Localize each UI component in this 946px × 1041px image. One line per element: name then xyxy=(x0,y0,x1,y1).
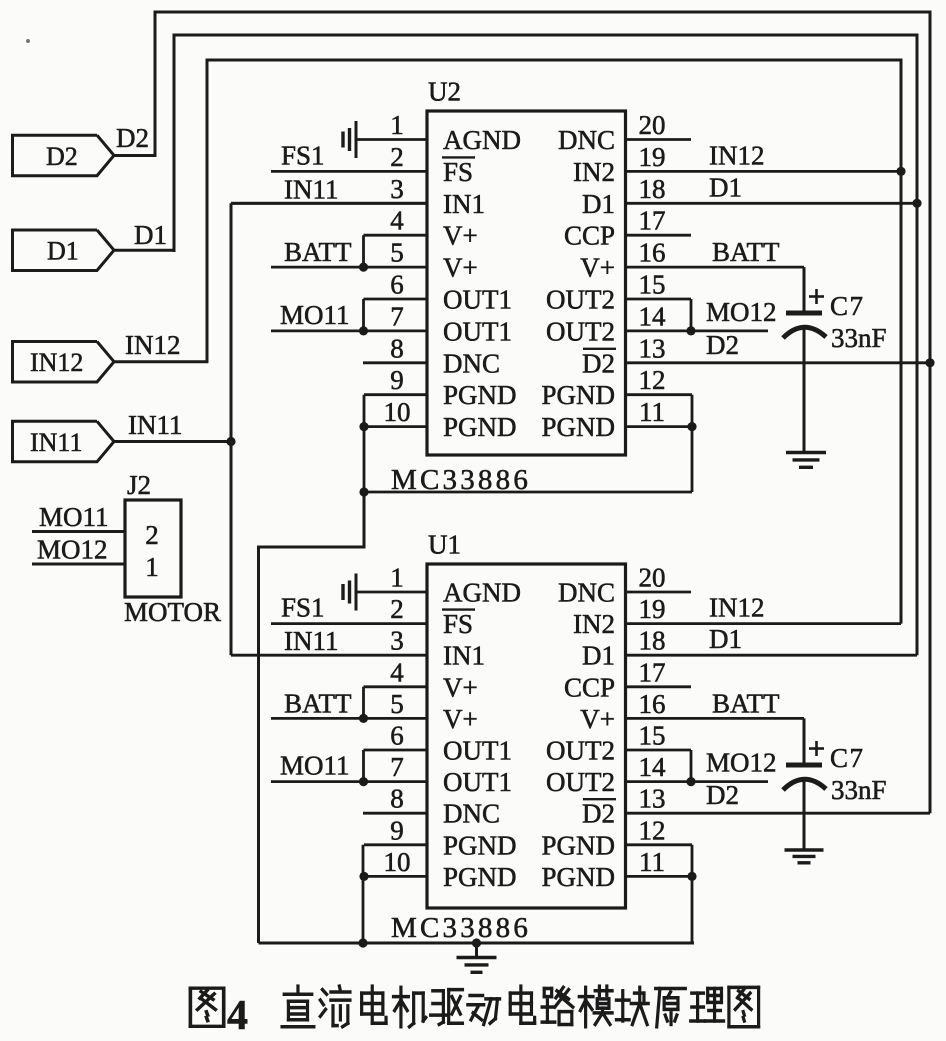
capacitor C7 (U2) top plate xyxy=(786,311,822,316)
svg-text:IN11: IN11 xyxy=(128,410,183,440)
wire U2 OUT2 loop vertical pin15-pin14 xyxy=(690,299,693,331)
svg-text:D1: D1 xyxy=(582,189,615,219)
svg-text:C7: C7 xyxy=(830,291,865,321)
caption character 模 xyxy=(579,986,612,1027)
wire U1 pin9 PGND xyxy=(364,843,427,846)
svg-text:V+: V+ xyxy=(443,704,478,734)
junction U1 PGND bottom-left xyxy=(358,938,367,947)
wire IN11 bus vertical: U2 pin3 down to U1 pin3 xyxy=(231,202,427,205)
capacitor C7 (U1) top plate xyxy=(786,763,822,768)
svg-text:BATT: BATT xyxy=(284,237,352,267)
svg-text:4: 4 xyxy=(390,657,404,687)
wire U1 pin15 OUT2 xyxy=(626,749,692,752)
svg-text:10: 10 xyxy=(384,847,411,877)
capacitor C7 (U1) lead to ground xyxy=(803,778,806,849)
svg-text:BATT: BATT xyxy=(712,237,780,267)
junction U2 pin7 MO11 xyxy=(359,326,368,335)
capacitor C7 (U1) lead from V+ wire xyxy=(803,718,806,763)
svg-text:MO11: MO11 xyxy=(280,751,350,781)
wire U1 pin16 V+ to BATT/C7 xyxy=(626,717,805,720)
wire U2 pin16 V+ to BATT/C7 xyxy=(626,266,805,269)
caption character 原 xyxy=(656,988,686,1026)
svg-text:IN12: IN12 xyxy=(30,348,83,377)
wire U2 pin5 V+ from BATT xyxy=(271,266,427,269)
svg-text:U1: U1 xyxy=(428,530,461,560)
wire U1 pin5 V+ from BATT xyxy=(271,717,427,720)
svg-text:D2: D2 xyxy=(706,780,739,810)
svg-text:16: 16 xyxy=(639,689,666,719)
svg-text:17: 17 xyxy=(639,657,666,687)
svg-text:6: 6 xyxy=(390,721,404,751)
svg-text:D2: D2 xyxy=(46,142,78,171)
wire U1 pin8 DNC stub xyxy=(363,812,427,815)
svg-text:V+: V+ xyxy=(443,672,478,702)
svg-text:IN1: IN1 xyxy=(443,641,485,671)
svg-text:BATT: BATT xyxy=(284,688,352,718)
svg-text:D2: D2 xyxy=(582,799,615,829)
wire U2 PGND left loop vertical pin9-pin10 down to bottom rail xyxy=(363,395,366,492)
svg-text:D2: D2 xyxy=(582,348,615,378)
svg-text:IN1: IN1 xyxy=(443,189,485,219)
caption character 直 xyxy=(282,986,314,1027)
wire U2 pin6 OUT1 xyxy=(364,298,428,301)
caption character 驱 xyxy=(431,990,463,1025)
wire flag IN11 to IN11 bus junction xyxy=(114,440,231,443)
wire U2 pin3 IN1 from IN11 bus xyxy=(231,202,427,205)
svg-text:D2: D2 xyxy=(706,330,739,360)
svg-text:V+: V+ xyxy=(443,221,478,251)
wire U2 pin1 AGND to signal ground xyxy=(356,138,427,141)
svg-text:IN11: IN11 xyxy=(284,174,339,204)
svg-text:IN11: IN11 xyxy=(30,428,82,457)
connector J2 MOTOR outline xyxy=(125,500,181,597)
wire U1 pin13 D2 to D2 bus xyxy=(626,812,931,815)
capacitor C7 (U2) curved plate xyxy=(783,327,826,338)
svg-text:IN12: IN12 xyxy=(709,140,765,170)
caption character 动 xyxy=(468,995,500,1024)
wire U2 pin7 OUT1 from MO11 xyxy=(271,329,427,332)
wire U1 pin3 IN1 from IN11 bus xyxy=(231,654,427,657)
svg-text:OUT1: OUT1 xyxy=(443,736,512,766)
ground (signal) at U1 pin1 xyxy=(343,574,356,611)
svg-text:9: 9 xyxy=(390,365,404,395)
svg-text:3: 3 xyxy=(390,174,404,204)
wire MO12 to J2 pin1 xyxy=(32,563,125,566)
capacitor C7 (U2) polarity + xyxy=(809,289,824,304)
svg-text:11: 11 xyxy=(639,847,665,877)
svg-text:V+: V+ xyxy=(443,253,478,283)
ground (earth) main PGND xyxy=(457,958,497,973)
caption character 图 xyxy=(729,987,759,1026)
junction U2 pin18 / D1 bus xyxy=(912,199,921,208)
svg-text:OUT1: OUT1 xyxy=(443,767,512,797)
wire U1 pin14 OUT2 to MO12 xyxy=(626,780,769,783)
svg-text:3: 3 xyxy=(390,626,404,656)
caption character 电 xyxy=(362,986,386,1023)
svg-text:14: 14 xyxy=(639,301,667,331)
connector flag D2 xyxy=(13,135,115,176)
IC U1 (lower driver) body outline MC33886 xyxy=(427,564,626,908)
svg-text:U2: U2 xyxy=(428,77,461,107)
wire flag IN12 to bus xyxy=(114,360,208,363)
wire U1 pin2 FS from FS1 xyxy=(271,622,427,625)
svg-text:MOTOR: MOTOR xyxy=(124,597,221,627)
caption character 路 xyxy=(542,987,573,1024)
svg-text:2: 2 xyxy=(390,142,404,172)
wire U2 pin4 V+ xyxy=(364,234,428,237)
wire U1 PGND right loop vertical pin12-pin11 to bottom rail xyxy=(691,845,694,943)
svg-text:13: 13 xyxy=(639,784,666,814)
svg-text:19: 19 xyxy=(639,594,666,624)
svg-text:18: 18 xyxy=(639,626,666,656)
connector flag D1 xyxy=(13,230,115,271)
junction U1 pin5 BATT xyxy=(359,714,368,723)
svg-text:MO11: MO11 xyxy=(39,502,109,532)
wire PGND link U2 to U1: down, left, down xyxy=(259,492,365,943)
capacitor C7 (U2) lead to ground xyxy=(803,326,806,451)
caption character 块 xyxy=(616,987,648,1024)
svg-text:C7: C7 xyxy=(830,743,865,773)
wire U1 pin12 PGND xyxy=(626,843,693,846)
junction U2 pin13 / D2 bus xyxy=(925,358,934,367)
wire U2 pin10 PGND xyxy=(364,425,427,428)
junction U2 PGND bottom-left xyxy=(359,487,368,496)
junction U2 pin19 / IN12 bus xyxy=(896,167,905,176)
junction U1 pin7 MO11 xyxy=(359,777,368,786)
svg-text:OUT2: OUT2 xyxy=(546,316,615,346)
svg-text:MO12: MO12 xyxy=(37,535,108,565)
svg-text:OUT1: OUT1 xyxy=(443,285,512,315)
svg-text:D1: D1 xyxy=(582,641,615,671)
svg-text:33nF: 33nF xyxy=(831,775,887,805)
svg-text:PGND: PGND xyxy=(443,412,517,442)
junction U2 pin10 PGND xyxy=(359,422,368,431)
svg-text:15: 15 xyxy=(639,270,666,300)
wire U1 OUT2 loop vertical pin15-pin14 xyxy=(690,750,693,782)
wire U1 pin4 V+ xyxy=(364,685,428,688)
wire U1 pin19 IN2 to IN12 bus xyxy=(626,622,902,625)
svg-text:1: 1 xyxy=(390,110,404,140)
svg-text:V+: V+ xyxy=(580,253,615,283)
wire flag D1 to bus xyxy=(114,249,175,252)
wire U1 PGND left loop vertical pin9-pin10 to bottom rail xyxy=(362,845,365,943)
wire U1 pin7 OUT1 from MO11 xyxy=(271,780,427,783)
connector flag IN11 xyxy=(13,421,115,462)
wire U2 pin15 OUT2 xyxy=(626,298,692,301)
svg-text:FS1: FS1 xyxy=(281,593,325,623)
wire U1 pin6 OUT1 xyxy=(364,749,428,752)
svg-text:CCP: CCP xyxy=(564,221,615,251)
svg-text:7: 7 xyxy=(390,752,404,782)
wire U1 pin18 D1 to D1 bus xyxy=(626,654,918,657)
svg-text:IN12: IN12 xyxy=(125,330,181,360)
svg-text:5: 5 xyxy=(390,238,404,268)
svg-text:4: 4 xyxy=(390,206,404,236)
wire U2 pin20 DNC stub xyxy=(626,138,692,141)
capacitor C7 (U1) polarity + xyxy=(809,741,824,756)
svg-text:PGND: PGND xyxy=(443,380,517,410)
wire U1 pin1 AGND to signal ground xyxy=(356,591,427,594)
svg-text:5: 5 xyxy=(390,689,404,719)
wire U1 pin10 PGND xyxy=(364,875,427,878)
svg-text:OUT2: OUT2 xyxy=(546,285,615,315)
junction U2 pin11 PGND xyxy=(687,422,696,431)
wire U2 OUT1 loop vertical pin6-pin7 xyxy=(362,299,365,331)
svg-text:20: 20 xyxy=(639,563,666,593)
svg-text:J2: J2 xyxy=(127,470,151,500)
svg-text:2: 2 xyxy=(145,520,159,550)
caption character 图 xyxy=(190,988,223,1026)
wire U2 pin13 D2 to D2 bus xyxy=(626,361,931,364)
svg-text:MO12: MO12 xyxy=(706,297,777,327)
wire U2 pin18 D1 to D1 bus xyxy=(626,202,918,205)
svg-text:MO11: MO11 xyxy=(280,300,350,330)
svg-text:13: 13 xyxy=(639,333,666,363)
svg-text:8: 8 xyxy=(390,333,404,363)
svg-text:12: 12 xyxy=(639,365,666,395)
svg-text:OUT2: OUT2 xyxy=(546,767,615,797)
wire MO11 to J2 pin2 xyxy=(32,530,125,533)
capacitor C7 (U1) curved plate xyxy=(783,779,826,790)
svg-text:FS1: FS1 xyxy=(281,140,325,170)
U1 FS pin-name overline xyxy=(442,608,475,610)
svg-text:12: 12 xyxy=(639,815,666,845)
ground (earth) C7 U2 xyxy=(786,453,826,468)
svg-text:17: 17 xyxy=(639,206,666,236)
wire U2 BATT loop vertical pin4-pin5 xyxy=(362,235,365,267)
svg-text:18: 18 xyxy=(639,174,666,204)
svg-text:19: 19 xyxy=(639,142,666,172)
ground stub below U1 PGND rail xyxy=(475,943,478,956)
svg-text:MC33886: MC33886 xyxy=(391,912,531,944)
wire IN12 bus: flag IN12 up-over-down to U1 pin19 xyxy=(207,60,901,624)
svg-text:DNC: DNC xyxy=(443,348,500,378)
svg-text:D1: D1 xyxy=(134,220,167,250)
svg-text:MO12: MO12 xyxy=(706,748,777,778)
wire U1 BATT loop vertical pin4-pin5 xyxy=(362,687,365,719)
svg-text:6: 6 xyxy=(390,270,404,300)
svg-text:DNC: DNC xyxy=(558,578,615,608)
svg-text:AGND: AGND xyxy=(443,578,521,608)
svg-text:8: 8 xyxy=(390,784,404,814)
svg-text:D1: D1 xyxy=(709,624,742,654)
svg-text:OUT2: OUT2 xyxy=(546,736,615,766)
svg-text:20: 20 xyxy=(639,110,666,140)
svg-text:CCP: CCP xyxy=(564,672,615,702)
svg-text:PGND: PGND xyxy=(443,862,517,892)
svg-text:PGND: PGND xyxy=(541,412,615,442)
junction U1 pin14 MO12 xyxy=(686,777,695,786)
wire U2 pin9 PGND xyxy=(364,393,427,396)
wire flag D2 to bus xyxy=(112,154,156,157)
svg-text:IN11: IN11 xyxy=(284,626,339,656)
svg-text:OUT1: OUT1 xyxy=(443,316,512,346)
svg-text:IN2: IN2 xyxy=(573,157,615,187)
U2 D2 pin-name overline xyxy=(583,348,616,350)
svg-text:DNC: DNC xyxy=(443,799,500,829)
svg-text:DNC: DNC xyxy=(558,125,615,155)
wire U2 pin2 FS from FS1 xyxy=(271,170,427,173)
junction U2 pin14 MO12 xyxy=(686,326,695,335)
wire U2 PGND bottom rail xyxy=(364,491,692,494)
svg-text:7: 7 xyxy=(390,301,404,331)
svg-text:D2: D2 xyxy=(116,123,149,153)
wire U2 pin12 PGND xyxy=(626,393,693,396)
IC U2 (upper driver) body outline MC33886 xyxy=(427,111,626,455)
svg-text:PGND: PGND xyxy=(541,862,615,892)
svg-text:33nF: 33nF xyxy=(831,323,887,353)
svg-text:AGND: AGND xyxy=(443,125,521,155)
U2 FS pin-name overline xyxy=(442,156,475,158)
U1 D2 pin-name overline xyxy=(583,798,616,800)
svg-text:PGND: PGND xyxy=(541,380,615,410)
caption character 机 xyxy=(394,987,426,1026)
svg-text:D1: D1 xyxy=(709,172,742,202)
caption character 电 xyxy=(510,986,534,1023)
svg-text:11: 11 xyxy=(639,397,665,427)
junction U1 pin10 PGND xyxy=(359,872,368,881)
svg-text:BATT: BATT xyxy=(712,688,780,718)
wire U2 pin8 DNC stub xyxy=(363,361,427,364)
svg-text:4: 4 xyxy=(227,993,248,1039)
wire U2 pin19 IN2 to IN12 bus xyxy=(626,170,902,173)
wire D2 bus: flag D2 up-over-down to U1 pin13 xyxy=(155,12,930,813)
wire U1 pin20 DNC stub xyxy=(626,591,692,594)
junction bottom rail to earth ground xyxy=(472,938,481,947)
scan speck (decorative) xyxy=(26,39,30,43)
svg-text:FS: FS xyxy=(443,157,473,187)
wire U2 PGND right loop vertical pin12-pin11 to bottom rail xyxy=(691,395,694,492)
junction U1 pin11 PGND xyxy=(687,872,696,881)
svg-text:D1: D1 xyxy=(47,237,79,266)
caption character 理 xyxy=(691,988,724,1020)
wire U2 pin14 OUT2 to MO12 xyxy=(626,329,769,332)
svg-text:PGND: PGND xyxy=(541,830,615,860)
svg-text:FS: FS xyxy=(443,609,473,639)
caption character 流 xyxy=(320,986,350,1027)
ground (earth) C7 U1 xyxy=(785,850,824,863)
wire U2 pin11 PGND xyxy=(626,425,693,428)
wire U1 PGND bottom rail xyxy=(259,942,695,945)
svg-text:IN2: IN2 xyxy=(573,609,615,639)
ground (signal) at U2 pin1 xyxy=(343,121,356,158)
wire U1 OUT1 loop vertical pin6-pin7 xyxy=(362,750,365,782)
svg-text:IN12: IN12 xyxy=(709,593,765,623)
capacitor C7 (U2) lead from V+ wire xyxy=(803,267,806,311)
svg-text:1: 1 xyxy=(145,552,159,582)
svg-text:14: 14 xyxy=(639,752,667,782)
svg-text:9: 9 xyxy=(390,815,404,845)
svg-text:2: 2 xyxy=(390,594,404,624)
wire U1 pin17 CCP stub xyxy=(626,685,692,688)
wire U2 pin17 CCP stub xyxy=(626,234,692,237)
svg-text:15: 15 xyxy=(639,721,666,751)
junction IN11 flag / bus xyxy=(226,437,235,446)
connector flag IN12 xyxy=(13,342,115,383)
svg-text:V+: V+ xyxy=(580,704,615,734)
svg-text:16: 16 xyxy=(639,238,666,268)
svg-text:10: 10 xyxy=(384,397,411,427)
svg-text:1: 1 xyxy=(390,563,404,593)
svg-text:PGND: PGND xyxy=(443,830,517,860)
wire U1 pin11 PGND xyxy=(626,875,693,878)
junction U2 pin5 BATT xyxy=(359,263,368,272)
wire D1 bus: flag D1 up-over-down to U1 pin18 xyxy=(174,35,917,655)
